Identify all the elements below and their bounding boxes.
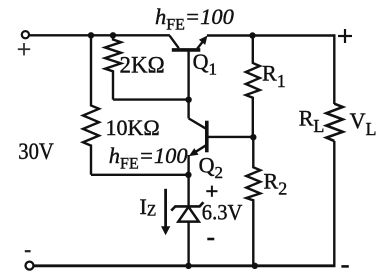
node dot 10K top	[88, 32, 94, 38]
input terminal top-left	[22, 31, 29, 38]
label hFE=100 top	[155, 4, 234, 34]
label R2	[264, 168, 288, 198]
label IZ	[140, 194, 157, 220]
label VL	[350, 108, 377, 139]
node dot R2 bottom rail	[252, 263, 258, 269]
wire Q1 base to Q2 collector	[189, 100, 206, 129]
node dot R1-R2 junction	[250, 134, 256, 140]
transistor Q1	[170, 36, 208, 100]
plus sign at input top	[18, 43, 30, 55]
label R1	[262, 61, 286, 92]
resistor R1	[246, 36, 260, 138]
input terminal bottom-left	[26, 262, 34, 270]
wire bottom rail	[34, 264, 336, 267]
wire top rail left	[30, 34, 170, 36]
node dot zener bottom rail	[185, 263, 191, 269]
wire 2K bottom to Q1 base node	[113, 98, 189, 100]
wire Q2 base to R1-R2 junction	[208, 136, 253, 138]
wire Q2 emitter to zener	[187, 155, 189, 206]
node dot Q1 base / 2K bottom	[185, 97, 191, 103]
resistor RL load	[326, 104, 343, 141]
minus sign at input bottom	[25, 250, 31, 252]
resistor R2	[246, 137, 260, 266]
label plus at zener	[206, 186, 217, 197]
svg-text:30V: 30V	[18, 139, 54, 164]
label 2K ohm	[120, 53, 165, 78]
svg-text:10KΩ: 10KΩ	[106, 115, 160, 140]
node dot zener top / 10K	[185, 172, 191, 178]
minus sign output bottom-right	[341, 265, 348, 268]
label minus at zener	[207, 238, 214, 241]
transistor Q2	[189, 121, 207, 156]
svg-text:2KΩ: 2KΩ	[120, 53, 165, 78]
label 6.3V	[202, 200, 243, 225]
node dot 2K top	[110, 32, 116, 38]
wire right side vertical	[333, 34, 335, 266]
label 30V	[18, 139, 54, 164]
label Q2	[199, 153, 223, 183]
resistor 2K ohm	[105, 35, 121, 99]
current arrow IZ	[161, 189, 170, 236]
label Q1	[193, 49, 217, 79]
zener diode 6.3V	[171, 202, 203, 266]
label RL	[299, 106, 325, 137]
wire 10K bottom to zener node	[91, 174, 188, 176]
node dot R1 top	[249, 32, 255, 38]
label 10K ohm	[106, 115, 160, 140]
wire top rail right	[207, 34, 336, 36]
plus sign output top-right	[338, 29, 352, 43]
resistor 10K ohm	[83, 35, 99, 175]
svg-text:6.3V: 6.3V	[202, 200, 243, 225]
label hFE=100 lower	[109, 143, 188, 173]
